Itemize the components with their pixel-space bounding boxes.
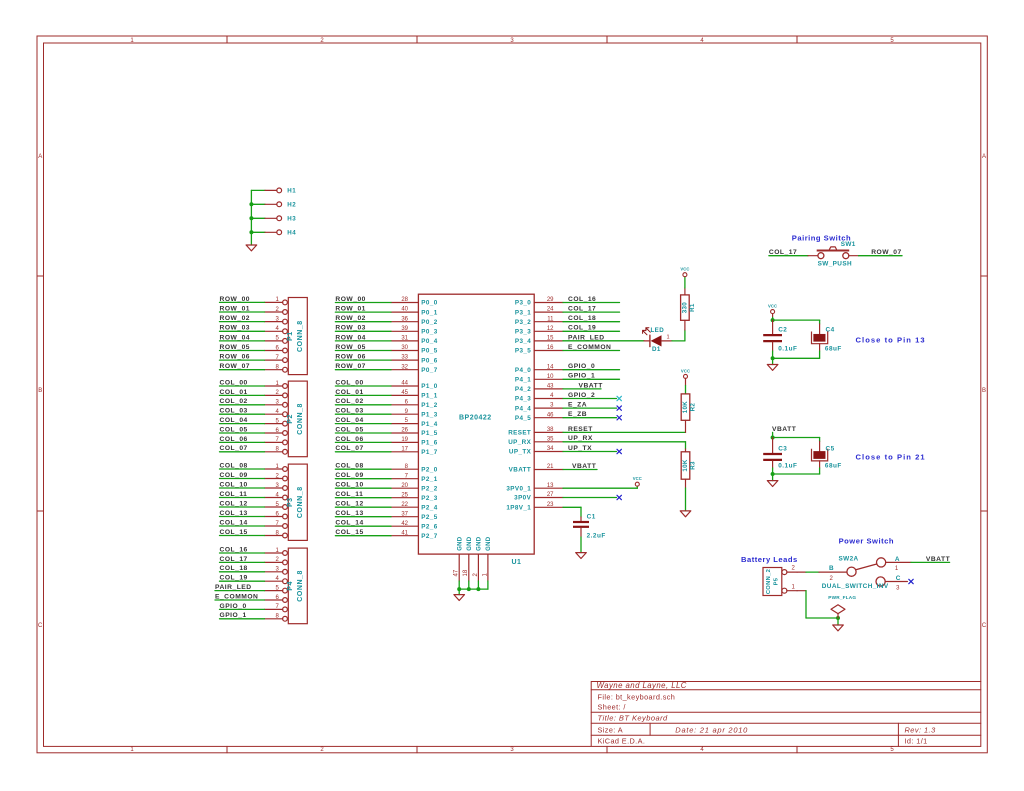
no-connect on SW2A pin C xyxy=(909,579,913,583)
svg-text:DUAL_SWITCH_INV: DUAL_SWITCH_INV xyxy=(822,583,889,590)
U1 pin 5 P1_4 / net COL_04 xyxy=(335,417,437,428)
svg-text:3: 3 xyxy=(896,585,900,591)
svg-text:40: 40 xyxy=(401,307,408,313)
wire+label ROW_06 at P1 pin 7 xyxy=(220,354,265,361)
U1 pin 30 P0_5 / net ROW_05 xyxy=(335,344,437,355)
svg-text:P4_4: P4_4 xyxy=(515,405,531,412)
ground below H connector xyxy=(246,245,257,251)
svg-text:P0_3: P0_3 xyxy=(421,329,437,336)
svg-text:19: 19 xyxy=(401,437,408,443)
svg-text:COL_15: COL_15 xyxy=(220,529,248,536)
ground below C2 xyxy=(767,365,778,371)
svg-text:Id: 1/1: Id: 1/1 xyxy=(905,737,928,746)
U1 GND pin 18 xyxy=(463,536,473,581)
svg-text:1P8V_1: 1P8V_1 xyxy=(506,505,531,512)
svg-text:ROW_01: ROW_01 xyxy=(220,305,251,312)
wire VBATT to C3/C5 rail xyxy=(773,438,820,442)
svg-text:PWR_FLAG: PWR_FLAG xyxy=(828,595,856,600)
ground below power flag xyxy=(833,625,844,631)
svg-text:1: 1 xyxy=(667,334,670,340)
svg-text:UP_RX: UP_RX xyxy=(508,439,531,446)
U1 pin 13 3PV0_1 wire to VCC xyxy=(506,483,637,493)
junction C2 bottom xyxy=(771,356,775,360)
svg-text:P0_1: P0_1 xyxy=(421,309,437,316)
svg-text:GND: GND xyxy=(486,536,492,551)
capacitor C5 68uF polarized xyxy=(812,441,842,474)
U1 pin 44 P1_0 / net COL_00 xyxy=(335,379,437,390)
svg-text:VCC: VCC xyxy=(633,476,642,481)
svg-text:24: 24 xyxy=(547,307,554,313)
svg-text:P1_2: P1_2 xyxy=(421,402,437,409)
connector P5 CONN_2 battery xyxy=(763,566,797,596)
svg-text:P4_3: P4_3 xyxy=(515,396,531,403)
svg-text:C: C xyxy=(982,623,987,629)
svg-text:Title: BT Keyboard: Title: BT Keyboard xyxy=(598,714,669,723)
svg-text:COL_02: COL_02 xyxy=(220,398,248,405)
svg-text:2: 2 xyxy=(792,566,796,572)
no-connect on GPIO_2 xyxy=(617,396,621,400)
svg-text:COL_18: COL_18 xyxy=(568,315,596,322)
svg-text:10K: 10K xyxy=(682,401,689,413)
svg-text:P4_5: P4_5 xyxy=(515,415,531,422)
svg-text:P0_6: P0_6 xyxy=(421,357,437,364)
svg-text:28: 28 xyxy=(401,297,408,303)
svg-text:P2_5: P2_5 xyxy=(421,514,437,521)
svg-text:P1_3: P1_3 xyxy=(421,411,437,418)
svg-text:SW_PUSH: SW_PUSH xyxy=(818,260,852,267)
connector P2 CONN_8 xyxy=(265,381,308,457)
svg-text:COL_18: COL_18 xyxy=(220,565,248,572)
wire+label COL_11 at P3 pin 4 xyxy=(220,491,265,498)
U1 pin 28 P0_0 / net ROW_00 xyxy=(335,296,437,307)
svg-text:UP_TX: UP_TX xyxy=(509,449,532,456)
wire+label ROW_07 at P1 pin 8 xyxy=(220,363,265,370)
svg-text:E_ZB: E_ZB xyxy=(568,411,587,418)
wire+label COL_00 at P2 pin 1 xyxy=(220,379,265,386)
svg-text:Sheet: /: Sheet: / xyxy=(598,703,627,712)
svg-text:R1: R1 xyxy=(689,303,696,312)
svg-text:ROW_05: ROW_05 xyxy=(220,344,251,351)
wire+label COL_09 at P3 pin 2 xyxy=(220,472,265,479)
wire+label ROW_07 from SW1 xyxy=(849,249,902,256)
svg-text:COL_12: COL_12 xyxy=(220,500,248,507)
svg-text:U1: U1 xyxy=(512,559,522,566)
svg-text:CONN_8: CONN_8 xyxy=(297,570,304,602)
svg-text:P2_7: P2_7 xyxy=(421,533,437,540)
svg-text:E_ZA: E_ZA xyxy=(568,402,587,409)
svg-text:A: A xyxy=(38,154,42,160)
svg-text:P3_5: P3_5 xyxy=(515,348,531,355)
wire+label ROW_05 at P1 pin 6 xyxy=(220,344,265,351)
svg-text:GPIO_2: GPIO_2 xyxy=(568,392,595,399)
svg-text:P2: P2 xyxy=(287,414,294,424)
svg-text:VBATT: VBATT xyxy=(926,556,951,563)
svg-text:33: 33 xyxy=(401,355,408,361)
U1 pin 26 P1_5 / net COL_05 xyxy=(335,426,437,437)
U1 pin 22 P2_4 / net COL_12 xyxy=(335,501,437,512)
svg-text:3PV0_1: 3PV0_1 xyxy=(506,485,531,492)
U1 GND pin 2 xyxy=(473,536,483,581)
U1 pin 25 P2_3 / net COL_11 xyxy=(335,491,437,502)
U1 pin 23 1P8V_1 wire to C1 xyxy=(506,502,581,517)
svg-text:ROW_02: ROW_02 xyxy=(335,315,366,322)
U1 pin 24 P3_1 / net COL_17 xyxy=(515,306,620,317)
svg-text:SW2A: SW2A xyxy=(839,555,859,562)
svg-text:COL_13: COL_13 xyxy=(335,510,363,517)
svg-text:30: 30 xyxy=(401,345,408,351)
U1 pin 6 P1_2 / net COL_02 xyxy=(335,398,437,409)
wire+label COL_19 at P4 pin 4 xyxy=(220,575,265,582)
U1 pin 37 P2_5 / net COL_13 xyxy=(335,510,437,521)
svg-text:P1_1: P1_1 xyxy=(421,393,437,400)
svg-text:P2_1: P2_1 xyxy=(421,476,437,483)
svg-text:CONN_8: CONN_8 xyxy=(297,486,304,518)
svg-text:ROW_02: ROW_02 xyxy=(220,315,251,322)
svg-text:P2_3: P2_3 xyxy=(421,495,437,502)
U1 pin 41 P2_7 / net COL_15 xyxy=(335,529,437,540)
svg-text:H1: H1 xyxy=(287,188,296,195)
ground below C3 xyxy=(767,481,778,487)
svg-text:COL_14: COL_14 xyxy=(335,520,363,527)
capacitor C4 68uF polarized xyxy=(812,324,842,358)
svg-text:COL_09: COL_09 xyxy=(220,472,248,479)
U1 pin 4 P4_3 / net GPIO_2 xyxy=(515,392,617,403)
svg-text:COL_17: COL_17 xyxy=(769,249,797,256)
svg-text:Close to Pin 21: Close to Pin 21 xyxy=(856,453,926,462)
svg-text:P0_7: P0_7 xyxy=(421,367,437,374)
VCC above R1 xyxy=(683,273,687,277)
svg-text:P5: P5 xyxy=(774,577,780,585)
U1 pin 34 UP_TX / net UP_TX xyxy=(509,445,617,456)
wire C2/C4 bottom rail xyxy=(773,351,820,365)
svg-text:COL_05: COL_05 xyxy=(220,426,248,433)
svg-text:P2_6: P2_6 xyxy=(421,523,437,530)
svg-text:COL_08: COL_08 xyxy=(335,463,363,470)
svg-text:COL_00: COL_00 xyxy=(220,379,248,386)
wire+label COL_08 at P3 pin 1 xyxy=(220,462,265,469)
U1 pin 17 P1_7 / net COL_07 xyxy=(335,445,437,456)
svg-text:14: 14 xyxy=(547,364,554,370)
svg-text:15: 15 xyxy=(547,336,554,342)
svg-text:18: 18 xyxy=(463,569,469,576)
svg-text:COL_16: COL_16 xyxy=(568,296,596,303)
svg-text:13: 13 xyxy=(547,483,554,489)
svg-text:H4: H4 xyxy=(287,230,296,237)
svg-text:P2_0: P2_0 xyxy=(421,466,437,473)
svg-text:COL_03: COL_03 xyxy=(335,408,363,415)
svg-text:21: 21 xyxy=(547,464,554,470)
svg-text:KiCad E.D.A.: KiCad E.D.A. xyxy=(598,737,646,746)
svg-text:COL_07: COL_07 xyxy=(335,445,363,452)
wire+label COL_03 at P2 pin 4 xyxy=(220,408,265,415)
svg-text:ROW_06: ROW_06 xyxy=(335,354,366,361)
svg-text:P1: P1 xyxy=(287,331,294,341)
power flag PWR_FLAG xyxy=(828,595,856,618)
svg-text:VBATT: VBATT xyxy=(772,426,797,433)
no-connect on E_ZB xyxy=(617,416,621,420)
svg-text:COL_06: COL_06 xyxy=(335,436,363,443)
wire+label COL_13 at P3 pin 6 xyxy=(220,510,265,517)
svg-text:25: 25 xyxy=(401,492,408,498)
svg-text:P3_0: P3_0 xyxy=(515,300,531,307)
svg-text:23: 23 xyxy=(547,502,554,508)
wire+label COL_15 at P3 pin 8 xyxy=(220,529,265,536)
wire+label COL_17 to SW1 xyxy=(769,249,818,256)
wire SW2A pin C no-connect xyxy=(885,581,907,583)
junction H3 xyxy=(249,216,253,220)
U1 pin 10 P4_1 / net GPIO_1 xyxy=(515,373,620,384)
svg-text:COL_19: COL_19 xyxy=(220,575,248,582)
VCC above R2 xyxy=(684,374,688,378)
LED D1 xyxy=(563,327,672,353)
svg-text:D1: D1 xyxy=(652,346,661,353)
svg-text:ROW_04: ROW_04 xyxy=(220,334,251,341)
svg-text:P4_1: P4_1 xyxy=(515,377,531,384)
svg-text:32: 32 xyxy=(401,364,408,370)
svg-text:RESET: RESET xyxy=(568,426,593,433)
svg-text:11: 11 xyxy=(547,316,554,322)
U1 pin 15 P3_4 / net PAIR_LED xyxy=(515,334,644,345)
capacitor C2 0.1uF xyxy=(763,320,797,352)
wire battery pin1 to ground xyxy=(797,591,838,625)
VCC symbol at pin 13 xyxy=(635,482,639,486)
junction GND rail 2 xyxy=(467,587,471,591)
U1 pin 40 P0_1 / net ROW_01 xyxy=(335,306,437,317)
wire GND rail under U1 xyxy=(459,581,488,595)
VCC above C2 xyxy=(771,310,775,314)
wire+label COL_17 at P4 pin 2 xyxy=(220,556,265,563)
svg-text:42: 42 xyxy=(401,521,408,527)
wire battery pin2 to SW2A pin B xyxy=(797,571,847,573)
svg-text:COL_04: COL_04 xyxy=(335,417,363,424)
capacitor C3 0.1uF xyxy=(763,438,797,470)
svg-text:2.2uF: 2.2uF xyxy=(587,532,606,539)
svg-text:29: 29 xyxy=(547,297,554,303)
svg-text:10K: 10K xyxy=(682,459,689,471)
wire+label COL_02 at P2 pin 3 xyxy=(220,398,265,405)
svg-text:VCC: VCC xyxy=(681,368,690,373)
svg-text:P4: P4 xyxy=(287,581,294,591)
svg-text:ROW_00: ROW_00 xyxy=(335,296,366,303)
wire+label GPIO_0 at P4 pin 7 xyxy=(220,603,265,610)
wire+label COL_16 at P4 pin 1 xyxy=(220,546,265,553)
svg-text:ROW_00: ROW_00 xyxy=(220,296,251,303)
wire+label VBATT from SW2A pin A xyxy=(886,556,951,563)
resistor R3 10K xyxy=(681,442,696,511)
U1 pin 3 P4_4 / net E_ZA xyxy=(515,402,617,413)
svg-text:2: 2 xyxy=(830,576,834,582)
svg-text:COL_16: COL_16 xyxy=(220,546,248,553)
wire+label PAIR_LED at P4 pin 5 xyxy=(215,584,265,591)
junction C3 bottom xyxy=(771,472,775,476)
svg-text:COL_05: COL_05 xyxy=(335,426,363,433)
ground below U1 xyxy=(454,595,465,601)
svg-text:P1_7: P1_7 xyxy=(421,449,437,456)
wire+label COL_01 at P2 pin 2 xyxy=(220,389,265,396)
U1 GND pin 47 xyxy=(454,536,464,581)
svg-text:68uF: 68uF xyxy=(825,345,842,352)
wire+label ROW_02 at P1 pin 3 xyxy=(220,315,265,322)
U1 pin 16 P3_5 / net E_COMMON xyxy=(515,344,620,355)
svg-text:P0_0: P0_0 xyxy=(421,300,437,307)
svg-text:C: C xyxy=(38,623,43,629)
svg-text:68uF: 68uF xyxy=(825,462,842,469)
U1 pin 42 P2_6 / net COL_14 xyxy=(335,520,437,531)
svg-text:C2: C2 xyxy=(778,327,787,334)
svg-text:ROW_07: ROW_07 xyxy=(871,249,902,256)
svg-text:47: 47 xyxy=(454,569,460,576)
svg-text:P1_4: P1_4 xyxy=(421,421,437,428)
svg-text:26: 26 xyxy=(401,428,408,434)
junction C2 top xyxy=(771,318,775,322)
U1 pin 8 P2_0 / net COL_08 xyxy=(335,463,437,474)
svg-text:COL_11: COL_11 xyxy=(220,491,248,498)
junction power flag xyxy=(836,616,840,620)
svg-text:ROW_03: ROW_03 xyxy=(220,325,251,332)
svg-text:E_COMMON: E_COMMON xyxy=(215,593,258,600)
U1 pin 38 RESET / net RESET xyxy=(508,426,685,437)
svg-text:P2_4: P2_4 xyxy=(421,504,437,511)
svg-text:COL_11: COL_11 xyxy=(335,491,363,498)
U1 pin 14 P4_0 / net GPIO_0 xyxy=(515,363,620,374)
svg-text:VBATT: VBATT xyxy=(509,467,532,474)
svg-text:COL_14: COL_14 xyxy=(220,519,248,526)
svg-text:COL_03: COL_03 xyxy=(220,408,248,415)
wire+label COL_07 at P2 pin 8 xyxy=(220,445,265,452)
svg-text:39: 39 xyxy=(401,326,408,332)
svg-text:COL_01: COL_01 xyxy=(335,389,363,396)
svg-text:COL_02: COL_02 xyxy=(335,398,363,405)
ground below C1 xyxy=(576,553,587,559)
svg-text:GND: GND xyxy=(477,536,483,551)
svg-text:38: 38 xyxy=(547,427,554,433)
ground below R3 xyxy=(680,511,691,517)
svg-text:R3: R3 xyxy=(689,461,696,470)
svg-text:ROW_03: ROW_03 xyxy=(335,325,366,332)
label VBATT above C3 xyxy=(772,426,797,438)
svg-text:COL_06: COL_06 xyxy=(220,436,248,443)
U1 pin 20 P2_2 / net COL_10 xyxy=(335,482,437,493)
svg-text:Date: 21 apr 2010: Date: 21 apr 2010 xyxy=(675,725,748,734)
svg-text:P2_2: P2_2 xyxy=(421,485,437,492)
svg-text:0.1uF: 0.1uF xyxy=(778,462,797,469)
svg-text:P0_2: P0_2 xyxy=(421,319,437,326)
capacitor C1 2.2uF xyxy=(573,514,606,553)
wire LED to R1 xyxy=(672,320,685,341)
mounting hole H3 xyxy=(251,216,296,223)
mounting hole H1 xyxy=(251,188,296,195)
svg-text:VBATT: VBATT xyxy=(579,382,604,389)
wire+label COL_04 at P2 pin 5 xyxy=(220,417,265,424)
svg-text:3P0V: 3P0V xyxy=(514,495,531,502)
svg-text:35: 35 xyxy=(547,436,554,442)
svg-text:C1: C1 xyxy=(587,514,596,521)
svg-text:P3_2: P3_2 xyxy=(515,319,531,326)
svg-text:37: 37 xyxy=(401,511,408,517)
svg-text:GND: GND xyxy=(467,536,473,551)
svg-text:22: 22 xyxy=(401,502,408,508)
U1 pin 35 UP_RX / net UP_RX xyxy=(508,435,685,446)
svg-text:P3: P3 xyxy=(287,497,294,507)
svg-text:P1_5: P1_5 xyxy=(421,430,437,437)
svg-text:44: 44 xyxy=(401,381,408,387)
svg-text:Battery Leads: Battery Leads xyxy=(741,555,798,564)
svg-text:VCC: VCC xyxy=(680,267,689,272)
svg-text:45: 45 xyxy=(401,390,408,396)
switch SW1 SW_PUSH xyxy=(817,241,856,267)
svg-text:Power Switch: Power Switch xyxy=(839,536,894,545)
svg-text:COL_17: COL_17 xyxy=(568,306,596,313)
U1 pin 11 P3_2 / net COL_18 xyxy=(515,315,620,326)
svg-text:C4: C4 xyxy=(826,327,835,334)
svg-text:COL_07: COL_07 xyxy=(220,445,248,452)
U1 pin 36 P0_2 / net ROW_02 xyxy=(335,315,437,326)
svg-text:CONN_8: CONN_8 xyxy=(297,403,304,435)
svg-text:P1_0: P1_0 xyxy=(421,383,437,390)
svg-text:COL_13: COL_13 xyxy=(220,510,248,517)
wire+label E_COMMON at P4 pin 6 xyxy=(215,593,265,600)
svg-text:Size: A: Size: A xyxy=(598,725,624,734)
svg-text:COL_19: COL_19 xyxy=(568,325,596,332)
svg-text:41: 41 xyxy=(401,530,408,536)
wire+label ROW_01 at P1 pin 2 xyxy=(220,305,265,312)
no-connect on UP_TX xyxy=(617,449,621,453)
svg-text:B: B xyxy=(38,388,42,394)
wire+label GPIO_1 at P4 pin 8 xyxy=(220,612,265,619)
svg-text:C5: C5 xyxy=(826,445,835,452)
wire H bus vertical xyxy=(250,190,252,245)
svg-text:COL_04: COL_04 xyxy=(220,417,248,424)
connector P1 CONN_8 xyxy=(265,297,308,374)
svg-text:COL_10: COL_10 xyxy=(220,481,248,488)
IC U1 BP20422 body xyxy=(418,294,534,566)
svg-text:0.1uF: 0.1uF xyxy=(778,345,797,352)
mounting hole H4 xyxy=(251,230,296,237)
svg-text:46: 46 xyxy=(547,412,554,418)
connector P4 CONN_8 xyxy=(265,548,308,624)
svg-text:12: 12 xyxy=(547,326,554,332)
U1 pin 19 P1_6 / net COL_06 xyxy=(335,436,437,447)
svg-text:ROW_07: ROW_07 xyxy=(220,363,251,370)
title block xyxy=(591,681,981,746)
wire+label ROW_04 at P1 pin 5 xyxy=(220,334,265,341)
svg-text:17: 17 xyxy=(401,446,408,452)
svg-text:ROW_07: ROW_07 xyxy=(335,363,366,370)
svg-text:Rev: 1.3: Rev: 1.3 xyxy=(905,725,937,734)
svg-text:GPIO_0: GPIO_0 xyxy=(568,363,595,370)
no-connect on E_ZA xyxy=(617,406,621,410)
wire+label COL_12 at P3 pin 5 xyxy=(220,500,265,507)
svg-text:COL_09: COL_09 xyxy=(335,472,363,479)
wire+label ROW_00 at P1 pin 1 xyxy=(220,296,265,303)
U1 pin 32 P0_7 / net ROW_07 xyxy=(335,363,437,374)
svg-text:VBATT: VBATT xyxy=(572,463,597,470)
svg-text:E_COMMON: E_COMMON xyxy=(568,344,611,351)
wire+label COL_18 at P4 pin 3 xyxy=(220,565,265,572)
U1 pin 31 P0_4 / net ROW_04 xyxy=(335,334,437,345)
svg-text:CONN_2: CONN_2 xyxy=(766,569,772,594)
svg-text:COL_17: COL_17 xyxy=(220,556,248,563)
U1 pin 7 P2_1 / net COL_09 xyxy=(335,472,437,483)
svg-text:P4_2: P4_2 xyxy=(515,386,531,393)
svg-text:COL_01: COL_01 xyxy=(220,389,248,396)
U1 pin 45 P1_1 / net COL_01 xyxy=(335,389,437,400)
svg-text:ROW_05: ROW_05 xyxy=(335,344,366,351)
junction H2 xyxy=(249,202,253,206)
svg-text:LED: LED xyxy=(651,327,665,334)
svg-text:GPIO_1: GPIO_1 xyxy=(568,373,595,380)
svg-text:COL_12: COL_12 xyxy=(335,501,363,508)
